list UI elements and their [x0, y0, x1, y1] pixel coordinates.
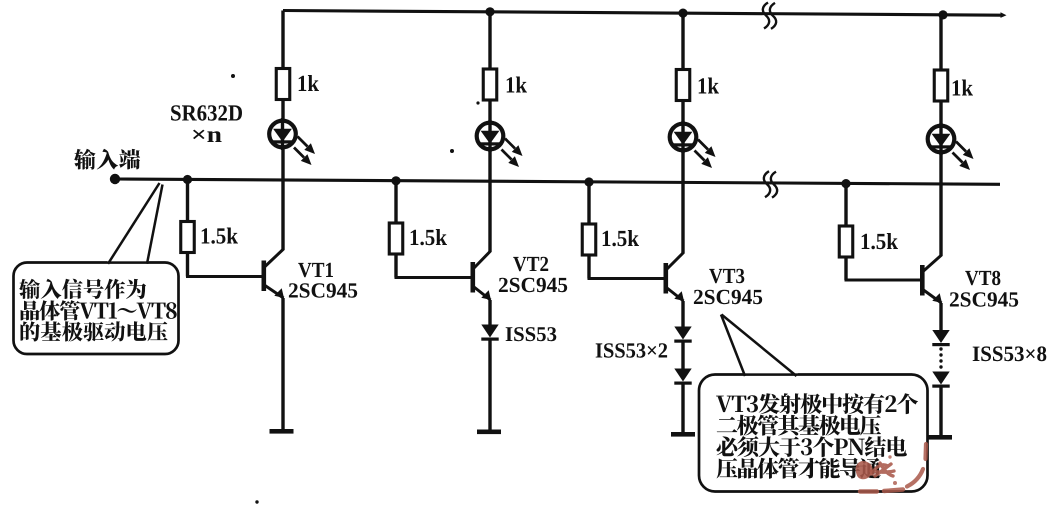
- callout balloon: input signal note: [14, 182, 179, 354]
- label: VT2: [513, 257, 548, 272]
- diode VD3a ISS53: [674, 327, 691, 343]
- label: value 1.5k (stage 2): [411, 229, 447, 245]
- LED VD3 SR632D: [670, 121, 716, 168]
- break mark on top rail: [763, 3, 776, 29]
- node: input rail junction (R 1.5k stage 2): [391, 176, 400, 185]
- node: input rail junction (R 1.5k stage 4): [841, 179, 850, 188]
- resistor R4b 1.5k: [839, 226, 853, 257]
- wire: R4a to LED (stage 4): [939, 100, 942, 125]
- wire: rail to R3 (stage 3): [681, 13, 684, 70]
- wire: input rail: [115, 179, 1000, 184]
- label: ISS53×2: [596, 343, 667, 357]
- label: input terminal 输入端: [74, 149, 140, 170]
- break mark on input rail: [764, 171, 777, 197]
- wire: top supply rail: [283, 11, 1007, 18]
- label: 2SC945 (stage 2): [499, 278, 567, 292]
- resistor R3b 1.5k: [582, 224, 596, 255]
- transistor VT1 2SC945: [262, 249, 285, 298]
- resistor R1b 1.5k: [181, 222, 195, 253]
- ground (stage 1): [270, 429, 294, 434]
- wire: input rail to R3b (stage 3): [587, 182, 590, 225]
- wire: rail to R4 (stage 4): [939, 15, 942, 71]
- node: top rail junction (stage 3): [678, 9, 687, 18]
- label: VT1: [298, 263, 333, 278]
- wire: rail to R1 (stage 1): [281, 11, 284, 70]
- scan speck 2: [450, 149, 454, 153]
- diode VD8b ISS53: [932, 372, 949, 388]
- wire: diode to ground (stage 2): [488, 340, 491, 432]
- label: ISS53×8: [973, 346, 1047, 361]
- wire: LED cathode down through input rail to collector (stage 2): [488, 149, 491, 252]
- resistor R4a 1k: [934, 70, 948, 101]
- LED VD2 SR632D: [477, 120, 523, 167]
- node: top rail junction (stage 4): [938, 10, 947, 19]
- resistor R2b 1.5k: [389, 223, 403, 254]
- node: top rail junction (stage 2): [485, 7, 494, 16]
- node: input rail junction (R 1.5k stage 1): [183, 175, 192, 184]
- diode VD8a ISS53: [932, 330, 949, 346]
- scan speck 4: [255, 500, 258, 503]
- callout text line 1 输入信号作为: [19, 279, 146, 299]
- wire: R3b to base of VT3: [588, 254, 665, 279]
- wire: LED cathode down through input rail to collector (stage 1): [281, 147, 284, 250]
- callout2 text line 4 压晶体管才能导通: [717, 458, 881, 479]
- wire: rail to R2 (stage 2): [488, 12, 491, 70]
- diode VD3b ISS53: [674, 369, 691, 385]
- scan speck 1: [231, 74, 235, 78]
- label: value 1k (stage 3): [699, 78, 719, 94]
- callout text line 3 的基极驱动电压: [21, 321, 168, 341]
- wire: VT1 emitter to ground: [281, 298, 284, 431]
- LED VD4 SR632D: [928, 123, 974, 170]
- label: value 1.5k (stage 4): [862, 233, 898, 249]
- node: input rail junction (R 1.5k stage 3): [584, 177, 593, 186]
- callout2 text line 2 二极管其基极电压: [717, 415, 881, 436]
- label: value 1.5k (stage 1): [202, 228, 238, 244]
- transistor VT2 2SC945: [471, 251, 492, 300]
- node: input terminal endpoint: [110, 174, 120, 184]
- callout2 text line 3 必须大于3个PN结电: [717, 436, 907, 457]
- wire: VT8 emitter to diode chain: [939, 303, 942, 331]
- LED VD1 SR632D: [269, 118, 315, 165]
- annotation: red pen scribble over 导通 and corner dashes: [857, 444, 926, 492]
- label: value 1k (stage 1): [299, 75, 319, 91]
- transistor VT3 2SC945: [664, 253, 685, 302]
- label: 2SC945 (stage 3): [694, 290, 762, 304]
- ground (stage 3): [671, 432, 695, 437]
- resistor R2a 1k: [483, 69, 497, 100]
- diode VD2a ISS53: [481, 325, 498, 341]
- wire: diode to ground (stage 3): [681, 384, 684, 434]
- dotted continuation (more diodes): [939, 347, 942, 368]
- ground (stage 2): [477, 430, 501, 435]
- wire: R2a to LED (stage 2): [488, 99, 491, 122]
- wire: LED cathode down through input rail to collector (stage 4): [939, 152, 942, 256]
- wire: between diodes (stage 3): [681, 342, 684, 369]
- wire: R4b to base of VT8: [845, 256, 922, 280]
- label: VT3: [709, 269, 744, 284]
- wire: R3a to LED (stage 3): [681, 100, 684, 124]
- callout balloon: VT3 emitter note: [699, 313, 928, 492]
- wire: input rail to R1b (stage 1): [186, 179, 189, 223]
- label: value 1k (stage 2): [507, 77, 527, 93]
- wire: LED cathode down through input rail to collector (stage 3): [681, 150, 684, 254]
- label: ISS53: [506, 327, 557, 341]
- wire: input rail to R4b (stage 4): [844, 183, 847, 227]
- label: value 1.5k (stage 3): [603, 230, 639, 246]
- callout2 text line 1 VT3发射极中按有2个: [716, 393, 918, 414]
- resistor R1a 1k: [276, 69, 290, 100]
- resistor R3a 1k: [676, 70, 690, 101]
- wire: R1b to base of VT1: [186, 252, 263, 277]
- callout text line 2 晶体管VT1~VT8: [21, 300, 177, 320]
- wire: diode to ground (stage 4): [939, 387, 942, 437]
- label: multiplier ×n: [193, 130, 222, 142]
- label: value 1k (stage 4): [953, 80, 973, 96]
- wire: VT2 emitter to diode: [488, 300, 491, 325]
- label: 2SC945 (stage 1): [289, 283, 357, 297]
- transistor VT8 2SC945: [920, 255, 942, 303]
- label: VT8: [965, 271, 1000, 286]
- scan speck 3: [476, 101, 479, 104]
- wire: VT3 emitter to diode chain: [681, 301, 684, 327]
- wire: input rail to R2b (stage 2): [394, 180, 397, 224]
- wire: R2b to base of VT2: [395, 253, 472, 278]
- label: LED type SR632D: [171, 105, 242, 120]
- ground (stage 4): [928, 435, 952, 440]
- label: 2SC945 (stage 4): [950, 292, 1018, 306]
- wire: R1a to LED (stage 1): [281, 99, 284, 121]
